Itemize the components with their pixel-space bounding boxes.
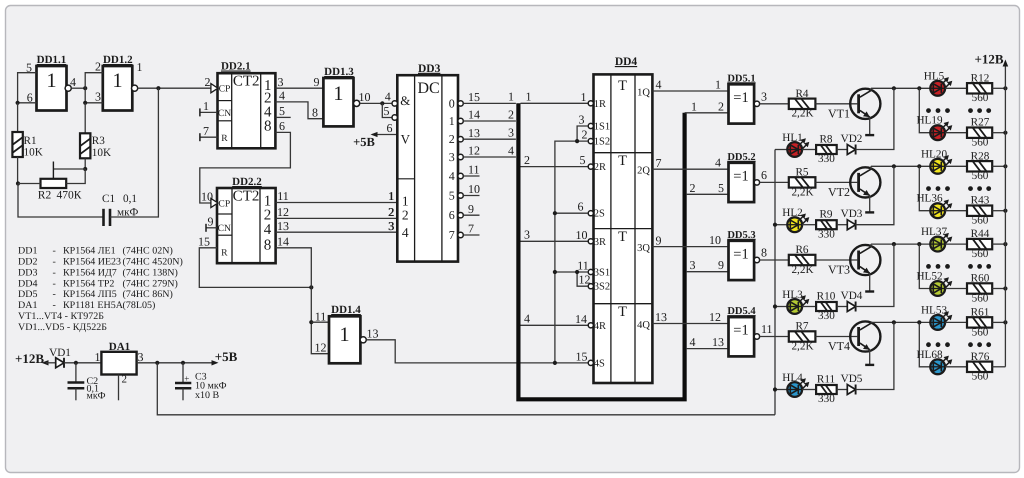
svg-text:560: 560 xyxy=(972,326,989,338)
wire R28 to rail xyxy=(992,165,1005,167)
svg-text:DD5.1: DD5.1 xyxy=(727,73,755,84)
svg-text:R1: R1 xyxy=(24,135,37,147)
gate DD1.1 xyxy=(37,66,67,111)
+12V arrow xyxy=(42,360,49,365)
wire HL36 to R43 xyxy=(945,210,967,212)
svg-text:4Q: 4Q xyxy=(637,320,650,331)
svg-text:1: 1 xyxy=(449,114,455,128)
wire DD5.1 out xyxy=(760,103,789,105)
pin 6 wire 2S xyxy=(555,212,588,214)
svg-text:DD3: DD3 xyxy=(18,267,37,278)
node C2 xyxy=(74,361,78,365)
svg-text:R4: R4 xyxy=(795,88,808,100)
svg-text:15: 15 xyxy=(198,234,210,248)
wire out3 to DD1.3 pin9 xyxy=(275,87,323,89)
svg-text:12: 12 xyxy=(709,310,721,324)
wire DD3 out 0 to bus xyxy=(463,102,516,104)
svg-text:6: 6 xyxy=(279,119,285,133)
svg-text:мкФ: мкФ xyxy=(87,391,106,402)
node VD riser xyxy=(892,164,896,168)
svg-text:6: 6 xyxy=(578,200,584,214)
svg-text:R9: R9 xyxy=(819,209,832,221)
DD4 input 1S1 bubble xyxy=(588,123,593,128)
svg-text:DD1.2: DD1.2 xyxy=(103,54,133,66)
svg-text:3Q: 3Q xyxy=(637,243,650,254)
wire DD3 out 3 to bus xyxy=(463,156,516,158)
svg-text:VD4: VD4 xyxy=(841,290,863,302)
wire DD3 out 2 to bus xyxy=(463,138,516,140)
diode VD3 xyxy=(847,220,855,230)
svg-text:R6: R6 xyxy=(795,244,808,256)
svg-text:VT1...VT4 - КТ972Б: VT1...VT4 - КТ972Б xyxy=(18,311,104,322)
resistor R4 2.2K xyxy=(789,99,816,109)
svg-text:CT2: CT2 xyxy=(233,189,260,205)
wire bus to 3R xyxy=(521,240,589,242)
output bubble DD1.1 xyxy=(65,85,71,91)
node 3S1 xyxy=(553,270,557,274)
wire R44 to rail xyxy=(992,243,1005,245)
svg-text:330: 330 xyxy=(818,310,835,322)
VT4 emitter lead xyxy=(869,350,871,365)
wire bus to DD5.1 in2 xyxy=(685,112,729,114)
wire 3Q to DD5.3 xyxy=(652,246,728,248)
svg-text:HL53: HL53 xyxy=(921,304,948,316)
diode VD1 xyxy=(56,358,64,368)
wire C1 to DD1.2 out node xyxy=(110,88,158,217)
svg-text:2: 2 xyxy=(508,108,514,122)
svg-text:3R: 3R xyxy=(594,237,606,248)
wire HL37 to R44 xyxy=(945,243,967,245)
svg-text:T: T xyxy=(618,229,627,245)
svg-text:C1: C1 xyxy=(102,193,115,205)
svg-text:HL37: HL37 xyxy=(921,226,948,238)
svg-text:2R: 2R xyxy=(594,162,606,173)
svg-text:DD2.1: DD2.1 xyxy=(221,61,251,73)
svg-text:1R: 1R xyxy=(594,99,606,110)
svg-text:DD1.3: DD1.3 xyxy=(324,66,354,78)
svg-text:560: 560 xyxy=(972,92,989,104)
wire jog to pin5 xyxy=(382,103,392,117)
wire 1S1 bracket xyxy=(577,126,588,141)
LED HL53 xyxy=(930,315,945,330)
node rail row2 xyxy=(1003,131,1007,135)
wire R9 out xyxy=(837,224,848,226)
svg-text:КР1564 ИЕ23: КР1564 ИЕ23 xyxy=(63,257,121,268)
svg-text:(74НС 138N): (74НС 138N) xyxy=(123,267,178,278)
node VD riser xyxy=(892,86,896,90)
wire R5 to base xyxy=(815,181,857,183)
wire R7 to base xyxy=(815,336,857,338)
svg-text:2: 2 xyxy=(582,128,588,142)
svg-text:R76: R76 xyxy=(971,351,990,363)
node DD1.2 input junction xyxy=(83,86,87,90)
node 3S2 bracket xyxy=(575,270,579,274)
svg-text:DC: DC xyxy=(417,80,439,97)
svg-text:T: T xyxy=(618,304,627,320)
wire bus to DD5.4 in13 xyxy=(687,348,729,350)
VT2 collector rail xyxy=(871,165,930,167)
node group riser xyxy=(917,320,921,324)
diode VD2 xyxy=(847,145,855,155)
svg-text:(74НС 86N): (74НС 86N) xyxy=(123,289,173,300)
LED HL52 xyxy=(930,281,945,296)
svg-text:15: 15 xyxy=(468,90,480,104)
gate DD1.3 xyxy=(323,78,353,126)
DD5.4 output bubble pin 11 xyxy=(754,334,759,339)
svg-text:R61: R61 xyxy=(971,306,990,318)
DD3 output 4 bubble pin 11 xyxy=(458,173,463,178)
svg-text:HL20: HL20 xyxy=(921,148,948,160)
pin 1 stub CN xyxy=(200,111,218,113)
wire feed to HL2 xyxy=(775,224,787,226)
svg-text:HL5: HL5 xyxy=(924,70,945,82)
svg-text:560: 560 xyxy=(972,215,989,227)
svg-text:2Q: 2Q xyxy=(637,166,650,177)
resistor R8 330 xyxy=(816,145,837,154)
wire out14 to DD1.4 xyxy=(276,248,329,354)
svg-text:2: 2 xyxy=(205,75,211,89)
group riser xyxy=(919,322,930,366)
LED HL37 xyxy=(930,237,945,252)
svg-text:3: 3 xyxy=(524,228,530,242)
wire R4 to base xyxy=(815,103,857,105)
svg-text:DD5.4: DD5.4 xyxy=(727,306,756,317)
wire R76 to rail xyxy=(992,366,1005,368)
svg-text:8: 8 xyxy=(761,246,767,260)
resistor R76 560 xyxy=(967,362,992,372)
wire 1Q to DD5.1 xyxy=(652,90,728,92)
svg-text:DD1: DD1 xyxy=(18,246,37,257)
+5V feed arrow xyxy=(373,134,398,136)
VT1 collector riser xyxy=(870,88,872,90)
wire DD1.2 out xyxy=(138,87,211,89)
svg-text:560: 560 xyxy=(972,137,989,149)
svg-text:DD1.4: DD1.4 xyxy=(331,304,361,316)
svg-text:R8: R8 xyxy=(819,134,832,146)
svg-text:DD4: DD4 xyxy=(615,56,638,68)
svg-text:2,2K: 2,2K xyxy=(791,264,813,276)
resistor R60 560 xyxy=(967,283,992,293)
pin 7 stub R xyxy=(200,136,218,138)
svg-text:10K: 10K xyxy=(92,147,111,159)
wire bus to 1R xyxy=(521,102,589,104)
node feed HL4 xyxy=(773,387,777,391)
svg-text:560: 560 xyxy=(972,248,989,260)
svg-text:3: 3 xyxy=(138,350,144,364)
resistor R27 560 xyxy=(967,128,992,138)
svg-text:4R: 4R xyxy=(594,321,606,332)
svg-text:R11: R11 xyxy=(817,374,835,386)
svg-text:+12В: +12В xyxy=(974,52,1003,67)
group riser xyxy=(919,244,930,288)
svg-text:R28: R28 xyxy=(971,150,990,162)
svg-text:1: 1 xyxy=(508,90,514,104)
svg-text:DD1.1: DD1.1 xyxy=(37,54,67,66)
svg-text:-: - xyxy=(53,257,56,268)
ellipsis dots xyxy=(926,108,931,113)
capacitor C3 xyxy=(182,363,184,383)
svg-text:14: 14 xyxy=(468,108,480,122)
resistor R12 560 xyxy=(967,83,992,93)
XOR gate DD5.4 xyxy=(729,317,755,356)
svg-text:R12: R12 xyxy=(971,72,990,84)
svg-text:3: 3 xyxy=(449,150,455,164)
svg-text:(78L05): (78L05) xyxy=(123,300,156,311)
DD4 section divider xyxy=(594,303,653,305)
DA1 pin2 lead xyxy=(118,375,120,401)
svg-text:T: T xyxy=(618,78,627,94)
wire VD4 to rail xyxy=(856,244,894,306)
svg-text:10: 10 xyxy=(201,190,213,204)
LED HL68 xyxy=(930,359,945,374)
wire bus to DD5.3 in9 xyxy=(687,271,729,273)
wire HL2 to R9 xyxy=(802,224,816,226)
svg-text:5: 5 xyxy=(384,104,390,118)
svg-text:9: 9 xyxy=(718,258,724,272)
svg-text:4: 4 xyxy=(264,222,272,238)
VT4 collector rail xyxy=(871,321,930,323)
group riser xyxy=(919,166,930,210)
wire to pin2 xyxy=(85,73,103,89)
svg-text:5: 5 xyxy=(580,153,586,167)
svg-text:HL52: HL52 xyxy=(916,271,942,283)
svg-text:1Q: 1Q xyxy=(637,88,650,99)
DD3 pin4 bubble xyxy=(392,101,397,106)
svg-text:4: 4 xyxy=(656,78,662,92)
wire bus to 4R xyxy=(521,324,589,326)
+12V rail right xyxy=(1004,65,1006,367)
svg-text:5: 5 xyxy=(279,104,285,118)
svg-text:10: 10 xyxy=(359,90,371,104)
resistor R2 (trimmer 470K) xyxy=(41,179,67,188)
svg-text:1: 1 xyxy=(46,70,56,92)
DD4 input 1R bubble xyxy=(588,101,593,106)
svg-text:DD5: DD5 xyxy=(18,289,37,300)
wire R2 right xyxy=(66,169,85,184)
svg-text:3: 3 xyxy=(95,90,101,104)
svg-text:14: 14 xyxy=(277,234,289,248)
DD5.3 output bubble pin 8 xyxy=(754,257,759,262)
svg-text:(74НС 02N): (74НС 02N) xyxy=(123,246,173,257)
wire R8 out xyxy=(837,149,848,151)
node group riser xyxy=(917,242,921,246)
flip-flop block DD4 xyxy=(594,74,653,383)
wire HL20 to R28 xyxy=(945,165,967,167)
svg-text:=1: =1 xyxy=(733,246,748,262)
svg-text:-: - xyxy=(53,246,56,257)
svg-text:10K: 10K xyxy=(24,147,43,159)
svg-text:CP: CP xyxy=(218,199,230,210)
svg-text:VT2: VT2 xyxy=(828,185,850,199)
DD4 input 4R bubble xyxy=(588,323,593,328)
node R1 top junction xyxy=(16,101,20,105)
wire bus to DD5.2 in5 xyxy=(687,193,729,195)
DD4 input 2S bubble xyxy=(588,211,593,216)
svg-text:7: 7 xyxy=(449,228,455,242)
gate DD1.2 xyxy=(103,66,133,111)
ellipsis dots xyxy=(926,342,931,347)
pin 15 R wire xyxy=(199,248,311,288)
pin 5 stub xyxy=(275,116,290,118)
svg-text:DD4: DD4 xyxy=(18,278,37,289)
svg-text:8: 8 xyxy=(312,106,318,120)
svg-text:R: R xyxy=(221,133,228,144)
pin 9 stub CN xyxy=(206,227,217,229)
svg-text:330: 330 xyxy=(818,153,835,165)
wire HL1 to R8 xyxy=(802,149,816,151)
VT2 collector riser xyxy=(870,166,872,169)
svg-text:2: 2 xyxy=(122,374,128,386)
DD3 output 2 bubble pin 13 xyxy=(458,137,463,142)
svg-text:HL36: HL36 xyxy=(916,193,943,205)
svg-text:VD2: VD2 xyxy=(841,133,863,145)
svg-text:2,2K: 2,2K xyxy=(791,340,813,352)
DD3 output 0 bubble pin 15 xyxy=(458,101,463,106)
svg-text:R60: R60 xyxy=(971,273,990,285)
svg-text:13: 13 xyxy=(277,219,289,233)
svg-text:КР1181 ЕН5А: КР1181 ЕН5А xyxy=(63,300,124,311)
svg-text:-: - xyxy=(53,289,56,300)
DD3 output 5 bubble pin 10 xyxy=(458,193,463,198)
svg-text:1: 1 xyxy=(581,90,587,104)
svg-text:4: 4 xyxy=(449,169,455,183)
DD3 output 3 bubble pin 12 xyxy=(458,154,463,159)
output bubble DD1.2 xyxy=(132,85,138,91)
node +12V rail row xyxy=(1003,164,1007,168)
transistor VT2 xyxy=(850,167,880,197)
resistor R43 560 xyxy=(967,206,992,216)
svg-text:2: 2 xyxy=(95,60,101,74)
resistor R61 560 xyxy=(967,317,992,327)
node 1S2 bracket xyxy=(575,139,579,143)
wire DD1.4 out to 4S xyxy=(366,340,588,363)
output bubble DD1.4 xyxy=(360,337,366,343)
node pin11 branch xyxy=(309,320,313,324)
svg-text:9: 9 xyxy=(208,214,214,228)
wire R11 out xyxy=(837,389,848,391)
svg-text:х10 В: х10 В xyxy=(195,390,220,401)
svg-text:-: - xyxy=(53,300,56,311)
VT2 emitter lead xyxy=(869,196,871,213)
wire to DD1.4 pin11 xyxy=(311,321,329,323)
svg-text:HL4: HL4 xyxy=(782,372,803,384)
DD4 section divider xyxy=(594,228,653,230)
resistor R6 2.2K xyxy=(789,255,816,265)
svg-text:330: 330 xyxy=(818,228,835,240)
wire feed to HL1 xyxy=(775,149,787,151)
svg-text:4: 4 xyxy=(402,225,409,240)
wire to pin3 xyxy=(85,88,103,103)
group riser xyxy=(919,88,930,132)
wire R12 to rail xyxy=(992,87,1005,89)
svg-text:3S1: 3S1 xyxy=(594,268,610,279)
wire out13 xyxy=(276,231,398,233)
wire HL5 to R12 xyxy=(945,87,967,89)
svg-text:DD2: DD2 xyxy=(18,257,37,268)
wire R43 to rail xyxy=(992,210,1005,212)
transistor VT3 xyxy=(850,245,880,275)
node R feedback xyxy=(309,285,313,289)
svg-text:2: 2 xyxy=(718,99,724,113)
svg-text:DA1: DA1 xyxy=(18,300,37,311)
wire HL3 to R10 xyxy=(802,306,816,308)
node R3/R2 wiper xyxy=(83,167,87,171)
VT3 emitter lead xyxy=(869,273,871,291)
wire 2Q to DD5.2 xyxy=(652,168,728,170)
svg-text:(74НС 279N): (74НС 279N) xyxy=(123,278,178,289)
node group riser xyxy=(917,86,921,90)
svg-text:12: 12 xyxy=(579,273,591,287)
wire DA1 out xyxy=(137,362,215,364)
DD4 input 3R bubble xyxy=(588,239,593,244)
svg-text:CP: CP xyxy=(219,84,231,95)
svg-text:1S2: 1S2 xyxy=(594,137,610,148)
wire VD2 to rail xyxy=(856,88,894,149)
svg-text:R: R xyxy=(221,248,228,259)
svg-text:330: 330 xyxy=(818,393,835,405)
svg-text:=1: =1 xyxy=(733,90,748,106)
svg-text:6: 6 xyxy=(449,208,455,222)
wire HL19 to R27 xyxy=(945,132,967,134)
+12V arrow top xyxy=(1003,60,1009,67)
svg-text:КР1564 ЛЕ1: КР1564 ЛЕ1 xyxy=(63,246,116,257)
svg-text:1: 1 xyxy=(339,324,349,346)
wire HL4 to R11 xyxy=(802,389,816,391)
LED feed line (left vertical) xyxy=(774,150,776,415)
wire VD5 to rail xyxy=(856,322,894,389)
svg-text:11: 11 xyxy=(577,259,589,273)
output bubble DD1.3 xyxy=(354,100,360,106)
svg-text:12: 12 xyxy=(277,205,289,219)
svg-text:(74НС 4520N): (74НС 4520N) xyxy=(123,257,183,268)
svg-text:15: 15 xyxy=(576,349,588,363)
svg-text:1: 1 xyxy=(402,194,409,209)
wire DD3 out 1 to bus xyxy=(463,120,516,122)
svg-text:-: - xyxy=(53,267,56,278)
svg-text:2: 2 xyxy=(389,205,395,219)
svg-text:1: 1 xyxy=(203,99,209,113)
svg-text:=1: =1 xyxy=(733,323,748,339)
capacitor C1 xyxy=(102,209,105,226)
decoder DD3 xyxy=(397,75,458,261)
svg-text:2: 2 xyxy=(449,132,455,146)
svg-text:КР1564 ТР2: КР1564 ТР2 xyxy=(63,278,114,289)
transistor VT1 xyxy=(850,89,880,119)
regulator DA1 xyxy=(101,352,136,375)
wire HL52 to R60 xyxy=(945,288,967,290)
node C1 branch xyxy=(156,86,160,90)
ellipsis dots xyxy=(926,186,931,191)
svg-text:HL68: HL68 xyxy=(916,349,943,361)
resistor R11 330 xyxy=(816,385,837,394)
VT1 collector rail xyxy=(871,87,930,89)
ellipsis dots xyxy=(926,264,931,269)
DD4 input 1S2 bubble xyxy=(588,139,593,144)
svg-text:=1: =1 xyxy=(733,168,748,184)
DD4 input 3S2 bubble xyxy=(588,284,593,289)
DD4 section divider xyxy=(594,152,653,154)
svg-text:1: 1 xyxy=(137,60,143,74)
wire R3 column xyxy=(84,103,86,134)
CP triangle DD2.2 xyxy=(211,198,218,207)
wire DD1.3 out xyxy=(360,102,393,104)
LED HL20 xyxy=(930,159,945,174)
LED HL3 xyxy=(787,299,802,314)
svg-text:VD3: VD3 xyxy=(841,208,863,220)
svg-text:CN: CN xyxy=(218,223,231,234)
svg-text:2S: 2S xyxy=(594,209,605,220)
svg-text:9: 9 xyxy=(656,233,662,247)
